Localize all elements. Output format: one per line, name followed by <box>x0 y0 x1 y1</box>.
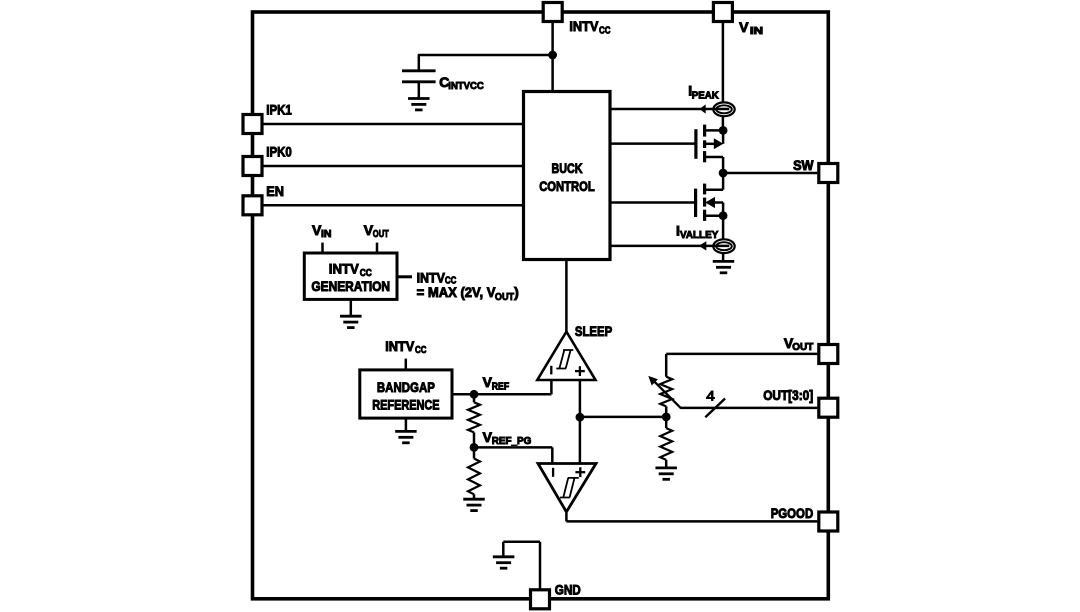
svg-text:PGOOD: PGOOD <box>771 505 814 521</box>
svg-text:OUT[3:0]: OUT[3:0] <box>763 387 813 403</box>
svg-text:INTV: INTV <box>385 338 415 354</box>
svg-text:BUCK: BUCK <box>551 160 582 176</box>
svg-text:IN: IN <box>750 25 763 37</box>
svg-text:SW: SW <box>793 157 814 173</box>
svg-text:REF: REF <box>492 380 510 392</box>
svg-text:INTVCC: INTVCC <box>448 80 484 92</box>
svg-text:GENERATION: GENERATION <box>311 278 390 294</box>
svg-text:V: V <box>739 19 749 35</box>
svg-text:INTV: INTV <box>569 18 599 34</box>
svg-text:GND: GND <box>555 581 581 597</box>
svg-text:EN: EN <box>266 183 284 199</box>
svg-text:CC: CC <box>599 24 611 36</box>
svg-text:VALLEY: VALLEY <box>680 229 718 241</box>
svg-text:INTV: INTV <box>417 269 446 285</box>
svg-text:CC: CC <box>360 267 372 279</box>
svg-text:): ) <box>514 284 519 300</box>
svg-text:OUT: OUT <box>792 341 814 353</box>
svg-text:CONTROL: CONTROL <box>539 178 595 194</box>
svg-text:BANDGAP: BANDGAP <box>377 379 435 395</box>
svg-text:PEAK: PEAK <box>692 90 719 102</box>
svg-text:REFERENCE: REFERENCE <box>372 396 439 412</box>
svg-text:OUT: OUT <box>373 228 389 240</box>
svg-text:= MAX (2V, V: = MAX (2V, V <box>417 284 497 300</box>
svg-text:REF_PG: REF_PG <box>492 435 532 447</box>
svg-text:SLEEP: SLEEP <box>575 323 612 339</box>
svg-text:INTV: INTV <box>329 261 360 277</box>
svg-text:IPK0: IPK0 <box>266 144 292 160</box>
svg-text:OUT: OUT <box>495 291 515 303</box>
svg-text:IPK1: IPK1 <box>266 102 292 118</box>
svg-text:IN: IN <box>321 228 332 240</box>
svg-text:4: 4 <box>706 388 715 403</box>
svg-text:CC: CC <box>415 344 427 356</box>
